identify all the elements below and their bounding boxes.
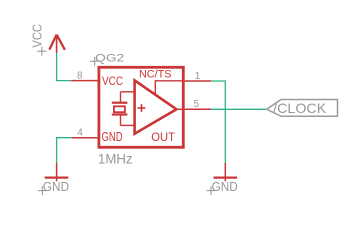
- svg-text:/CLOCK: /CLOCK: [273, 100, 327, 116]
- pin 4: [71, 137, 98, 139]
- supply symbol VCC (arrow): [49, 35, 65, 53]
- oscillator QG2 body: [99, 67, 183, 147]
- reference designator QG2: [90, 52, 124, 65]
- svg-text:NC/TS: NC/TS: [139, 69, 171, 81]
- svg-text:QG2: QG2: [95, 52, 124, 64]
- svg-text:VCC: VCC: [102, 74, 123, 88]
- pin 8: [71, 80, 98, 82]
- ground symbol GND (right): [207, 163, 238, 195]
- ground symbol GND (left): [38, 163, 69, 195]
- svg-text:GND: GND: [102, 130, 123, 144]
- wire pin 4 to GND: [57, 138, 72, 163]
- amplifier triangle: [135, 80, 177, 133]
- svg-text:5: 5: [194, 99, 200, 110]
- crystal feedback bottom: [121, 124, 135, 126]
- svg-text:8: 8: [77, 71, 83, 82]
- svg-text:1MHz: 1MHz: [98, 152, 133, 167]
- crystal feedback top: [121, 91, 135, 93]
- pin 5: [185, 108, 211, 110]
- crystal top plate: [112, 102, 128, 104]
- crystal symbol: [112, 92, 134, 126]
- svg-text:OUT: OUT: [151, 130, 175, 144]
- svg-text:GND: GND: [43, 179, 69, 194]
- crystal top connector: [120, 92, 122, 102]
- crystal bottom connector: [120, 115, 122, 125]
- pin 1: [185, 80, 211, 82]
- svg-text:GND: GND: [212, 179, 238, 194]
- tri-state control line (NC/TS to triangle): [155, 81, 182, 95]
- output stub (apex to box edge): [177, 108, 184, 110]
- svg-text:VCC: VCC: [31, 24, 45, 48]
- label VCC (gray, rotated): [31, 24, 47, 56]
- svg-text:4: 4: [77, 127, 83, 138]
- wire VCC to pin 8: [57, 53, 72, 81]
- wire pin 1 to GND net: [211, 81, 225, 163]
- net label /CLOCK flag: [267, 100, 338, 117]
- svg-text:1: 1: [195, 71, 201, 82]
- crystal element box: [114, 106, 125, 112]
- wire pin 5 to /CLOCK: [211, 108, 267, 110]
- crystal bottom plate: [112, 113, 128, 115]
- plus sign inside triangle: [138, 104, 146, 112]
